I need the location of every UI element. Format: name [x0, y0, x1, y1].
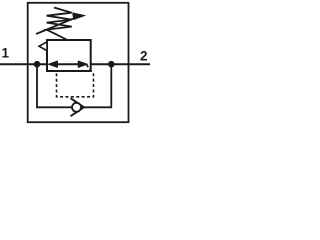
wire: main flow line 1-2	[0, 63, 150, 65]
check valve seat	[71, 98, 85, 116]
wire: bypass right leg	[84, 64, 111, 107]
junction dot left	[34, 61, 41, 68]
pilot line dashed	[57, 65, 94, 97]
regulator body box	[47, 40, 91, 71]
svg-text:2: 2	[140, 49, 148, 64]
check valve ball	[72, 103, 81, 112]
wire: bypass left leg	[37, 64, 72, 107]
junction dot right	[108, 61, 115, 68]
enclosure frame	[28, 3, 129, 122]
spring	[47, 8, 72, 40]
flow double arrow	[48, 61, 88, 68]
adjustment arrow	[36, 18, 74, 34]
relief triangle	[39, 42, 47, 51]
svg-text:1: 1	[2, 45, 10, 60]
